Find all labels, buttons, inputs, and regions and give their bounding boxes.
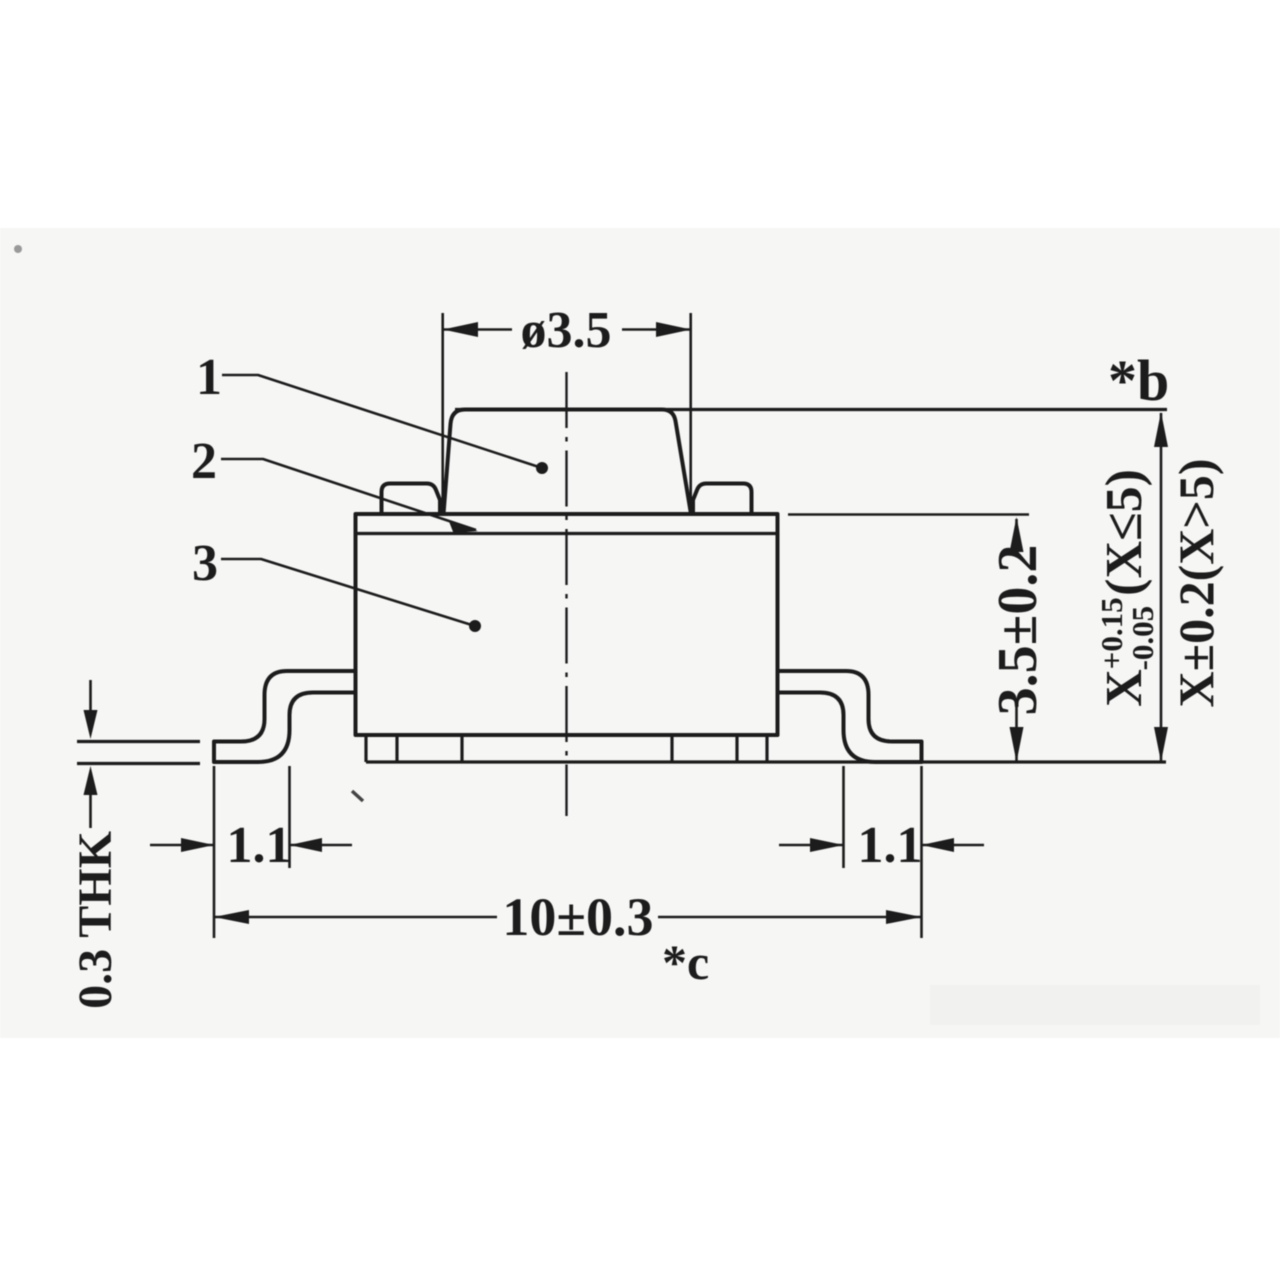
- leader 1 dot: [536, 462, 548, 474]
- 3.5±0.2 arrows: [1010, 517, 1024, 552]
- arrowheads: [84, 322, 1169, 924]
- svg-text:3: 3: [192, 535, 218, 592]
- 1.1 right: arrow tails: [779, 844, 844, 847]
- left gull-wing lead: [214, 671, 356, 762]
- svg-text:X±0.2(X>5): X±0.2(X>5): [1168, 459, 1224, 708]
- scan smudge band: [930, 985, 1260, 1025]
- 0.3 THK arrows: [84, 710, 98, 739]
- 10±0.3 dimension line: [214, 916, 497, 919]
- leader 2: [221, 459, 476, 530]
- cover plate line (part 2): [356, 532, 778, 535]
- X dimension arrows: [1154, 412, 1168, 447]
- leader 3 dot: [469, 620, 481, 632]
- stray tick below left foot: [352, 791, 363, 801]
- X dimension line: [1160, 413, 1163, 762]
- svg-text:ø3.5: ø3.5: [521, 302, 612, 359]
- stray scan dot: [14, 245, 22, 253]
- 1.1 left: arrow tails: [150, 844, 214, 847]
- svg-text:1.1: 1.1: [227, 817, 292, 874]
- leader 1: [222, 375, 542, 468]
- svg-text:1: 1: [196, 349, 222, 406]
- wire: bottom base line: [366, 760, 1166, 763]
- 1.1 left: extension lines: [213, 766, 216, 938]
- 1.1 right: extension lines: [842, 766, 845, 868]
- scan photo area tint: [0, 228, 1280, 1038]
- dimension ø3.5 lines: [443, 328, 512, 331]
- lead strip left (0.3 THK): [77, 740, 200, 743]
- svg-text:10±0.3: 10±0.3: [502, 887, 653, 947]
- bottom standoff strip: [364, 735, 367, 762]
- 3.5±0.2 extension line: [788, 513, 1029, 516]
- dimension ø3.5 extension lines: [441, 313, 444, 514]
- leader 2 arrow: [449, 522, 478, 534]
- 1.1 left arrows: [181, 838, 214, 852]
- 3.5±0.2 dimension line: [1015, 519, 1018, 556]
- 0.3 THK arrows: [89, 680, 92, 716]
- svg-text:3.5±0.2: 3.5±0.2: [987, 545, 1049, 716]
- svg-text:2: 2: [191, 433, 217, 490]
- svg-text:0.3 THK: 0.3 THK: [69, 831, 122, 1009]
- centerline: [565, 372, 567, 816]
- svg-text:X+0.15-0.05(X≤5): X+0.15-0.05(X≤5): [1094, 469, 1160, 707]
- leader 3: [221, 559, 475, 626]
- left terminal bump on cover: [382, 484, 441, 515]
- ø3.5 left arrow: [443, 322, 478, 337]
- switch body (part 3): [356, 514, 778, 735]
- button cap (part 1): [444, 410, 692, 515]
- right terminal bump on cover: [693, 484, 752, 515]
- 10±0.3 arrows: [214, 910, 249, 924]
- svg-text:1.1: 1.1: [858, 817, 923, 874]
- 1.1 right arrows: [810, 838, 844, 852]
- ø3.5 right arrow: [656, 322, 691, 337]
- right gull-wing lead: [778, 671, 922, 762]
- svg-text:*c: *c: [662, 934, 709, 990]
- wire: *b reference line (top of cap extended right): [455, 408, 1167, 411]
- svg-text:*b: *b: [1108, 348, 1169, 413]
